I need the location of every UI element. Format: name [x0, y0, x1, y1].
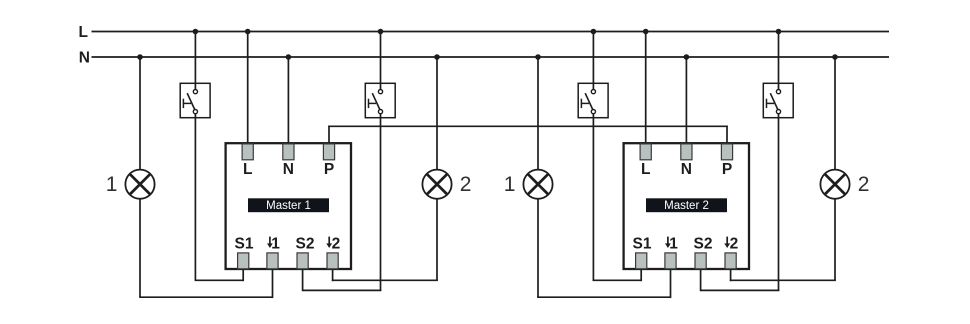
- svg-text:2: 2: [332, 236, 341, 253]
- switch S1 actuator head: [182, 99, 184, 108]
- lamp E4 (circle-X), load 2: [820, 170, 849, 199]
- switch S3 top contact: [591, 90, 595, 94]
- svg-text:Master 1: Master 1: [266, 200, 311, 212]
- wire: lamp 1 down: [139, 200, 141, 298]
- wire: L rail to switch S1 top contact: [194, 32, 196, 92]
- Master 1 terminal S2: [297, 253, 308, 269]
- wire: L rail to switch S4 top contact: [778, 32, 780, 92]
- wire: terminal S2 to switch S2 (bottom run): [303, 289, 382, 291]
- wire: lamp 2 up leg: [834, 200, 836, 281]
- wire: terminal arrow-2 to lamp 2 (bottom run): [730, 279, 836, 281]
- svg-text:2: 2: [460, 173, 472, 196]
- switch S3 (push-button) box: [578, 83, 608, 117]
- switch S1 top contact: [193, 90, 197, 94]
- switch S2 (push-button) box: [365, 83, 395, 117]
- wire: L rail to Master 2 terminal L: [645, 32, 647, 144]
- switch S3 actuator stem: [581, 102, 589, 104]
- switch S1 (push-button) box: [180, 83, 210, 117]
- switch S2 bottom contact: [378, 110, 382, 114]
- wire: N rail to Master 2 terminal N: [685, 57, 687, 144]
- wire: lamp 1 to terminal arrow-1 (bottom run): [139, 296, 272, 298]
- node on N rail: lamp 3 tap: [535, 54, 541, 60]
- node on L rail: switch S1 tap: [193, 29, 199, 35]
- Master 2 terminal N: [681, 144, 692, 160]
- switch S2 lever: [372, 93, 380, 109]
- Master 2 terminal L: [640, 144, 651, 160]
- N power rail: [92, 56, 890, 58]
- wire: N rail to lamp 3 (top): [537, 57, 539, 169]
- Master 2 terminal arrow-1: [665, 253, 676, 269]
- wire: lamp 1 down: [537, 200, 539, 298]
- wire: down from terminal arrow-2: [730, 269, 732, 281]
- svg-text:2: 2: [858, 173, 870, 196]
- node on L rail: Master 1 L tap: [245, 29, 251, 35]
- Master 2 terminal arrow-2: [725, 253, 736, 269]
- switch S3 lever: [585, 93, 593, 109]
- Master 1 terminal N: [283, 144, 294, 160]
- svg-text:1: 1: [271, 236, 280, 253]
- svg-text:1: 1: [669, 236, 678, 253]
- wire: N rail to Master 1 terminal N: [287, 57, 289, 144]
- lamp E1 (circle-X), load 1: [125, 170, 154, 199]
- node on L rail: switch S4 tap: [776, 29, 782, 35]
- switch S1 actuator stem: [183, 102, 191, 104]
- svg-text:S2: S2: [296, 236, 315, 253]
- svg-text:S1: S1: [633, 236, 652, 253]
- svg-text:1: 1: [106, 173, 118, 196]
- lamp E3 (circle-X), load 1: [523, 170, 552, 199]
- Master 1 terminal arrow-2: [327, 253, 338, 269]
- wire: switch S4 bottom contact down: [778, 112, 780, 291]
- Master 2 terminal label (arrow)2: [726, 237, 728, 245]
- node on L rail: Master 2 L tap: [643, 29, 649, 35]
- Master 2 terminal label (arrow)1: [667, 237, 669, 245]
- wire: switch S1 to terminal S1: [195, 279, 244, 281]
- wire: switch S1 bottom contact down: [194, 112, 196, 280]
- wire: up into terminal arrow-1: [670, 269, 672, 298]
- lamp E2 (circle-X), load 2: [422, 170, 451, 199]
- wire: terminal arrow-2 to lamp 2 (bottom run): [332, 279, 438, 281]
- wire: N rail to lamp 2 (top): [436, 57, 438, 169]
- switch S4 (push-button) box: [763, 83, 793, 117]
- switch S2 actuator stem: [369, 102, 377, 104]
- wire: down from terminal S2: [700, 269, 702, 291]
- switch S1 lever: [187, 93, 195, 109]
- switch S1 bottom contact: [193, 110, 197, 114]
- wire: N rail to lamp 2 (top): [834, 57, 836, 169]
- node on L rail: switch S2 tap: [378, 29, 384, 35]
- wire: down from terminal S2: [302, 269, 304, 291]
- svg-text:S2: S2: [694, 236, 713, 253]
- wire: N rail to lamp 1 (top): [139, 57, 141, 169]
- switch S2 top contact: [378, 90, 382, 94]
- svg-text:N: N: [79, 49, 90, 66]
- node on N rail: lamp 2 tap: [434, 54, 440, 60]
- wire: L rail to Master 1 terminal L: [247, 32, 249, 144]
- switch S4 bottom contact: [776, 110, 780, 114]
- wire: lamp 1 to terminal arrow-1 (bottom run): [537, 296, 670, 298]
- wire: switch S2 bottom contact down: [380, 112, 382, 291]
- svg-text:N: N: [681, 161, 692, 178]
- wire: L rail to switch S3 top contact: [592, 32, 594, 92]
- wire: terminal S2 to switch S4 (bottom run): [701, 289, 780, 291]
- switch S4 lever: [770, 93, 778, 109]
- svg-text:1: 1: [504, 173, 516, 196]
- wire: switch S3 bottom contact down: [592, 112, 594, 280]
- switch S4 actuator head: [766, 99, 768, 108]
- Master 1 terminal S1: [238, 253, 249, 269]
- wire: lamp 2 up leg: [436, 200, 438, 281]
- Master 1 terminal label (arrow)2: [328, 237, 330, 245]
- Master 1 nameplate: [248, 198, 329, 212]
- switch S3 actuator head: [580, 99, 582, 108]
- svg-text:Master 2: Master 2: [664, 200, 709, 212]
- wire: switch S3 to terminal S1: [593, 279, 642, 281]
- wire: up into terminal arrow-1: [272, 269, 274, 298]
- node on N rail: Master 2 N tap: [684, 54, 690, 60]
- switch S4 top contact: [776, 90, 780, 94]
- switch S4 actuator stem: [767, 102, 775, 104]
- node on N rail: lamp 1 tap: [137, 54, 143, 60]
- Master 1 terminal label (arrow)1: [269, 237, 271, 245]
- wire: up into terminal S1: [242, 269, 244, 281]
- Master 1 terminal arrow-1: [267, 253, 278, 269]
- wire: P bus Master 1 to Master 2: [328, 125, 728, 127]
- wire: down from terminal arrow-2: [332, 269, 334, 281]
- wire: Master 2 P down leg: [726, 126, 728, 144]
- svg-text:L: L: [243, 161, 252, 178]
- Master 2 nameplate: [646, 198, 727, 212]
- wire: L rail to switch S2 top contact: [380, 32, 382, 92]
- Master 1 terminal P: [323, 144, 334, 160]
- svg-text:P: P: [324, 161, 334, 178]
- Master 1 terminal L: [242, 144, 253, 160]
- Master 2 terminal P: [721, 144, 732, 160]
- wire: Master 1 P up leg: [328, 126, 330, 144]
- Master 2 terminal S2: [695, 253, 706, 269]
- switch S3 bottom contact: [591, 110, 595, 114]
- wire: up into terminal S1: [640, 269, 642, 281]
- L power rail: [92, 31, 890, 33]
- node on N rail: lamp 4 tap: [832, 54, 838, 60]
- Master 2 box (U2): [624, 143, 749, 269]
- svg-text:L: L: [79, 24, 88, 41]
- svg-text:P: P: [722, 161, 732, 178]
- node on L rail: switch S3 tap: [591, 29, 597, 35]
- Master 2 terminal S1: [636, 253, 647, 269]
- svg-text:S1: S1: [235, 236, 254, 253]
- svg-text:L: L: [641, 161, 650, 178]
- Master 1 box (U1): [226, 143, 351, 269]
- svg-text:N: N: [283, 161, 294, 178]
- node on N rail: Master 1 N tap: [286, 54, 292, 60]
- svg-text:2: 2: [730, 236, 739, 253]
- switch S2 actuator head: [368, 99, 370, 108]
